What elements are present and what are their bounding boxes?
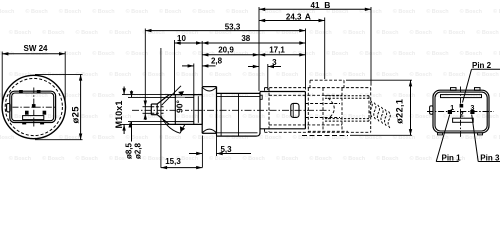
svg-text:© Bosch: © Bosch <box>309 29 332 36</box>
svg-text:© Bosch: © Bosch <box>192 134 215 141</box>
svg-text:© Bosch: © Bosch <box>309 71 332 78</box>
svg-text:B: B <box>324 0 330 10</box>
svg-text:© Bosch: © Bosch <box>209 71 232 78</box>
svg-text:ø25: ø25 <box>71 106 82 124</box>
svg-text:© Bosch: © Bosch <box>276 113 299 120</box>
svg-text:© Bosch: © Bosch <box>42 155 65 162</box>
svg-text:17,1: 17,1 <box>269 46 285 55</box>
svg-text:© Bosch: © Bosch <box>109 29 132 36</box>
svg-text:53,3: 53,3 <box>225 22 241 31</box>
svg-text:ø2,8: ø2,8 <box>133 142 142 159</box>
svg-text:20,9: 20,9 <box>218 46 234 55</box>
svg-text:© Bosch: © Bosch <box>476 71 499 78</box>
svg-text:© Bosch: © Bosch <box>142 29 165 36</box>
svg-text:© Bosch: © Bosch <box>92 134 115 141</box>
svg-text:© Bosch: © Bosch <box>92 8 115 15</box>
svg-text:© Bosch: © Bosch <box>109 71 132 78</box>
svg-text:© Bosch: © Bosch <box>276 29 299 36</box>
svg-text:SW 24: SW 24 <box>23 44 48 53</box>
svg-text:© Bosch: © Bosch <box>76 155 99 162</box>
svg-text:© Bosch: © Bosch <box>493 134 500 141</box>
svg-text:A: A <box>305 11 311 21</box>
svg-text:© Bosch: © Bosch <box>309 155 332 162</box>
svg-text:© Bosch: © Bosch <box>326 50 349 57</box>
svg-text:15,3: 15,3 <box>165 157 181 166</box>
svg-text:1: 1 <box>450 105 454 112</box>
svg-text:© Bosch: © Bosch <box>393 92 416 99</box>
svg-text:© Bosch: © Bosch <box>176 113 199 120</box>
svg-text:© Bosch: © Bosch <box>159 134 182 141</box>
svg-text:© Bosch: © Bosch <box>293 50 316 57</box>
svg-text:© Bosch: © Bosch <box>426 8 449 15</box>
svg-text:© Bosch: © Bosch <box>276 155 299 162</box>
svg-text:© Bosch: © Bosch <box>343 29 366 36</box>
svg-text:ø8,5: ø8,5 <box>124 142 133 159</box>
svg-text:© Bosch: © Bosch <box>209 155 232 162</box>
svg-text:© Bosch: © Bosch <box>493 92 500 99</box>
svg-text:41: 41 <box>311 1 320 10</box>
svg-text:© Bosch: © Bosch <box>426 50 449 57</box>
svg-text:© Bosch: © Bosch <box>142 71 165 78</box>
svg-text:© Bosch: © Bosch <box>393 50 416 57</box>
svg-text:© Bosch: © Bosch <box>376 155 399 162</box>
svg-text:© Bosch: © Bosch <box>226 134 249 141</box>
svg-text:© Bosch: © Bosch <box>126 8 149 15</box>
svg-text:© Bosch: © Bosch <box>25 8 48 15</box>
svg-text:© Bosch: © Bosch <box>142 155 165 162</box>
svg-text:© Bosch: © Bosch <box>0 8 15 15</box>
svg-text:© Bosch: © Bosch <box>276 71 299 78</box>
svg-text:© Bosch: © Bosch <box>476 29 499 36</box>
svg-text:© Bosch: © Bosch <box>460 50 483 57</box>
svg-text:© Bosch: © Bosch <box>243 71 266 78</box>
svg-text:© Bosch: © Bosch <box>159 8 182 15</box>
svg-text:© Bosch: © Bosch <box>476 113 499 120</box>
svg-text:© Bosch: © Bosch <box>226 8 249 15</box>
svg-text:© Bosch: © Bosch <box>410 71 433 78</box>
svg-text:© Bosch: © Bosch <box>259 134 282 141</box>
svg-text:© Bosch: © Bosch <box>493 8 500 15</box>
svg-text:© Bosch: © Bosch <box>343 71 366 78</box>
svg-text:© Bosch: © Bosch <box>460 8 483 15</box>
svg-text:ø22,1: ø22,1 <box>394 99 404 124</box>
svg-text:© Bosch: © Bosch <box>9 155 32 162</box>
svg-text:© Bosch: © Bosch <box>42 29 65 36</box>
svg-text:© Bosch: © Bosch <box>9 71 32 78</box>
svg-text:© Bosch: © Bosch <box>59 8 82 15</box>
svg-text:© Bosch: © Bosch <box>493 50 500 57</box>
svg-text:© Bosch: © Bosch <box>92 92 115 99</box>
svg-text:© Bosch: © Bosch <box>443 29 466 36</box>
svg-text:© Bosch: © Bosch <box>92 50 115 57</box>
svg-text:© Bosch: © Bosch <box>209 113 232 120</box>
svg-text:2,8: 2,8 <box>211 57 223 66</box>
svg-text:© Bosch: © Bosch <box>176 71 199 78</box>
svg-text:© Bosch: © Bosch <box>443 71 466 78</box>
svg-text:M10x1: M10x1 <box>114 100 124 128</box>
svg-text:© Bosch: © Bosch <box>410 155 433 162</box>
svg-text:38: 38 <box>241 34 250 43</box>
svg-text:© Bosch: © Bosch <box>376 71 399 78</box>
svg-text:© Bosch: © Bosch <box>126 134 149 141</box>
svg-text:© Bosch: © Bosch <box>410 113 433 120</box>
svg-text:© Bosch: © Bosch <box>159 50 182 57</box>
svg-text:24,3: 24,3 <box>286 12 302 21</box>
svg-text:© Bosch: © Bosch <box>9 29 32 36</box>
svg-text:Pin 2: Pin 2 <box>472 61 492 70</box>
svg-text:© Bosch: © Bosch <box>393 8 416 15</box>
svg-text:3: 3 <box>471 105 475 112</box>
svg-text:© Bosch: © Bosch <box>243 155 266 162</box>
svg-text:© Bosch: © Bosch <box>343 155 366 162</box>
svg-text:Pin 3: Pin 3 <box>480 153 500 162</box>
svg-text:Pin 1: Pin 1 <box>442 153 462 162</box>
svg-text:© Bosch: © Bosch <box>0 134 15 141</box>
svg-text:10: 10 <box>177 34 186 43</box>
svg-text:© Bosch: © Bosch <box>76 29 99 36</box>
svg-text:© Bosch: © Bosch <box>376 29 399 36</box>
svg-text:© Bosch: © Bosch <box>192 92 215 99</box>
svg-text:© Bosch: © Bosch <box>243 113 266 120</box>
svg-text:90°: 90° <box>174 99 184 112</box>
svg-text:© Bosch: © Bosch <box>410 29 433 36</box>
svg-text:© Bosch: © Bosch <box>192 8 215 15</box>
